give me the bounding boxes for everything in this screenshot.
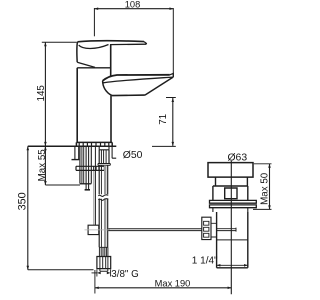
pop-up drop rod [93, 166, 95, 225]
drain center axis [230, 161, 232, 294]
spout inner top line [103, 77, 173, 83]
extension line bottom of 350 [28, 269, 94, 271]
dim line Max 190 [95, 287, 232, 289]
supply pipe inner wall [100, 165, 102, 247]
dim line Max 50 [269, 164, 271, 210]
supply nut bottom stub [100, 269, 108, 272]
extension line top of 145 [42, 41, 77, 43]
supply nut [97, 257, 111, 269]
extension line bottom of Max 55 [45, 184, 80, 186]
lever head bottom slant [77, 62, 95, 67]
threaded shank edges [80, 146, 91, 183]
drain washer bar 1 [210, 200, 257, 203]
drain washer bar 2 [210, 205, 257, 208]
base flange ticks [79, 143, 109, 147]
threaded rod bottom cap [85, 189, 90, 191]
drain divider line [217, 239, 248, 241]
supply nut facets [100, 257, 108, 269]
spout left underside curve [103, 81, 112, 96]
drain body [213, 186, 248, 200]
hose nut block [99, 150, 109, 164]
faucet lever top edge [78, 41, 145, 42]
horseshoe washer plate [76, 166, 104, 170]
dim line Max 55 [44, 146, 46, 185]
long nut bottom [80, 183, 91, 185]
dim line 145 [44, 42, 46, 146]
drain inner square [225, 188, 237, 199]
body right edge upper [110, 45, 112, 77]
body top line [77, 67, 111, 69]
Max 190 left extension [94, 270, 96, 294]
drain neck [216, 177, 248, 186]
hose pipe upper stubs [99, 146, 109, 149]
body left edge [76, 68, 78, 143]
drain lower body [217, 212, 248, 268]
rod inside drain body [217, 228, 236, 232]
lever saddle curve [79, 45, 109, 49]
svg-text:Max 55: Max 55 [37, 149, 48, 182]
drain mid section [213, 208, 248, 212]
svg-text:Ø50: Ø50 [123, 150, 143, 161]
linkage ribbed nut [202, 217, 211, 239]
dim line 71 [172, 98, 174, 146]
svg-text:71: 71 [158, 114, 169, 125]
spout top edge [103, 75, 170, 81]
counter top line [28, 145, 117, 147]
washer hatch ticks [94, 167, 102, 171]
pipe break squiggles [98, 195, 108, 201]
supply pipe gray shading [104, 165, 106, 247]
svg-text:Ø63: Ø63 [227, 152, 247, 163]
lever head left edge [76, 42, 79, 62]
extension line right of 108 (spout tip) [172, 8, 174, 77]
extension line bottom of 71 [152, 145, 176, 147]
threaded rod pair [86, 146, 89, 189]
hose washer [98, 164, 110, 166]
spout tip bevel [170, 73, 174, 77]
extension line top of 71 [166, 97, 176, 99]
linkage nut slots [204, 221, 209, 237]
base flange [76, 142, 112, 146]
lever blade right bevel [144, 42, 146, 45]
pop-up rod horizontal [108, 229, 202, 231]
Max 50 top extension [254, 163, 272, 165]
linkage stem lines [211, 223, 217, 237]
shank facet lines [82, 146, 84, 183]
spout underside diagonal [145, 77, 173, 95]
spout shoulder [103, 76, 111, 81]
body right edge lower [110, 96, 112, 143]
3/8 dim line with arrows [92, 272, 97, 274]
basin edge L-piece [112, 146, 116, 158]
spout bottom face (aerator) [112, 94, 145, 97]
dim line 350 [27, 146, 29, 269]
pop-up rod clamp block [88, 225, 99, 234]
pipe threaded section [99, 247, 108, 256]
svg-text:350: 350 [16, 192, 28, 210]
lever blade bottom edge [110, 43, 146, 45]
svg-text:1 1/4": 1 1/4" [192, 255, 218, 266]
rod axis gray [85, 229, 111, 231]
extension line left of 108 (faucet axis) [93, 8, 95, 36]
svg-text:3/8" G: 3/8" G [111, 269, 138, 280]
left mounting stud [75, 146, 79, 159]
svg-text:Max 190: Max 190 [155, 278, 191, 288]
supply pipe walls [99, 165, 108, 247]
hose nut facets [101, 150, 106, 163]
3/8 dim extension lines [97, 270, 111, 277]
Max 50 bottom extension [253, 208, 272, 210]
dim line 108 [94, 8, 173, 10]
dim line 1 1/4 [217, 264, 248, 266]
svg-text:Max 50: Max 50 [259, 172, 270, 205]
drain flange [208, 163, 253, 178]
